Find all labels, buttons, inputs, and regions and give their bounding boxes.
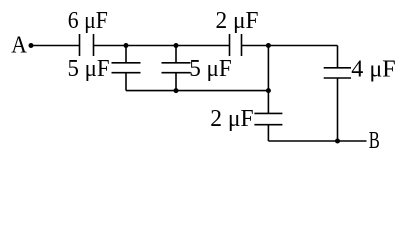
svg-text:A: A xyxy=(11,32,27,59)
svg-text:4 μF: 4 μF xyxy=(351,55,395,82)
svg-text:5 μF: 5 μF xyxy=(68,55,110,82)
svg-text:6 μF: 6 μF xyxy=(68,7,108,34)
svg-text:B: B xyxy=(369,127,380,154)
svg-text:2 μF: 2 μF xyxy=(216,7,259,34)
svg-text:5 μF: 5 μF xyxy=(189,55,232,82)
svg-text:2 μF: 2 μF xyxy=(210,105,253,132)
